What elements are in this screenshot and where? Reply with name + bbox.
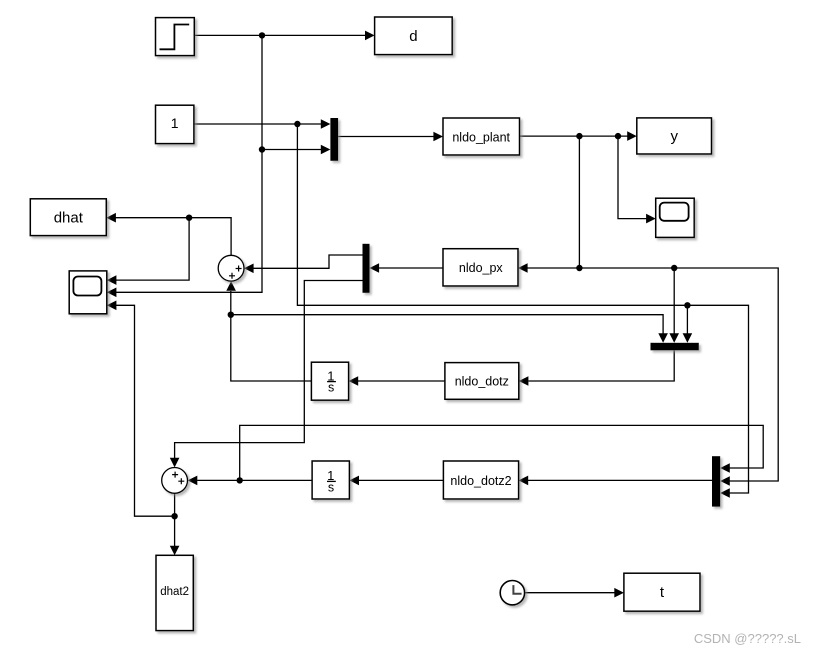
scope Scope1 bbox=[69, 271, 107, 314]
wire step junction down to mux input 2 bbox=[262, 35, 322, 149]
arrowhead into sum2 right bbox=[188, 476, 198, 486]
wire nldo_plant output to y bbox=[520, 135, 629, 137]
svg-text:CSDN @?????.sL: CSDN @?????.sL bbox=[694, 631, 801, 646]
integrator 1/s block 2 bbox=[312, 461, 349, 499]
svg-text:nldo_dotz2: nldo_dotz2 bbox=[450, 474, 511, 488]
outport t bbox=[624, 573, 700, 611]
svg-text:nldo_px: nldo_px bbox=[459, 261, 504, 275]
wire y branch down to scope2 bbox=[618, 136, 647, 219]
outport y bbox=[637, 118, 712, 154]
wire y branch down to x net bbox=[578, 136, 580, 268]
arrowhead into dhat bbox=[106, 213, 116, 223]
arrowhead into scope1 input 3 bbox=[107, 301, 117, 311]
arrowhead into y bbox=[627, 131, 637, 141]
node junction d line bbox=[259, 146, 265, 152]
arrowhead into nldo_dotz bbox=[519, 376, 529, 386]
node junction z2 net bbox=[237, 477, 243, 483]
wire dhat branch to scope input 1 bbox=[116, 218, 189, 280]
arrowhead into t bbox=[614, 588, 624, 598]
arrowhead into nldo_px bbox=[518, 263, 528, 273]
svg-text:dhat: dhat bbox=[54, 209, 84, 226]
sum2 plus right bbox=[178, 478, 184, 484]
node junction step-d bbox=[259, 32, 265, 38]
step block bbox=[156, 18, 195, 56]
arrowhead into sum1 right bbox=[244, 264, 254, 274]
sum2 plus top bbox=[172, 472, 178, 478]
wire integrator1 output up to sum1 bottom bbox=[231, 291, 312, 381]
node junction u to bus1 bbox=[684, 302, 690, 308]
node junction x to bus1 bbox=[671, 265, 677, 271]
mux bus1 horizontal bbox=[651, 343, 699, 351]
arrowhead into mux2 input 2 bbox=[720, 476, 730, 486]
clock block bbox=[500, 581, 524, 605]
arrowhead into dhat2 bbox=[170, 546, 180, 556]
sum1 plus right bbox=[236, 266, 242, 272]
wire demux1 output 1 to sum1 bbox=[254, 255, 363, 268]
arrowhead into bus1 input 2 bbox=[669, 333, 679, 343]
wire mux2 output to nldo_dotz2 bbox=[528, 479, 712, 481]
sum Sum2 bbox=[162, 468, 188, 494]
arrowhead into demux1 bbox=[370, 263, 380, 273]
wire sum1 output to dhat bbox=[116, 218, 232, 256]
arrowhead into bus1 input 3 bbox=[683, 333, 693, 343]
wire x net to nldo_px and east to mux2 input 2 bbox=[528, 268, 779, 481]
svg-text:dhat2: dhat2 bbox=[160, 586, 189, 598]
wire sum2 output down to dhat2 bbox=[174, 494, 176, 547]
node junction y line 1 bbox=[576, 133, 582, 139]
arrowhead into mux2 input 3 bbox=[720, 488, 730, 498]
wire step to d bbox=[195, 34, 367, 36]
outport dhat2 bbox=[156, 555, 193, 630]
wire nldo_px output to demux1 bbox=[379, 267, 443, 269]
demux Demux1 bbox=[363, 244, 370, 293]
wire constant 1 to mux input 1 bbox=[194, 123, 322, 125]
arrowhead into nldo_plant bbox=[433, 132, 443, 142]
arrowhead into integrator1 bbox=[349, 376, 359, 386]
wire integrator2 output to sum2 bbox=[197, 479, 312, 481]
outport dhat bbox=[30, 199, 106, 236]
wire bus1 output to nldo_dotz bbox=[529, 350, 675, 381]
mux Mux1 bbox=[330, 118, 338, 161]
wire nldo_dotz2 output to integrator2 bbox=[359, 479, 443, 481]
arrowhead into nldo_dotz2 bbox=[519, 476, 529, 486]
arrowhead into mux1 input 1 bbox=[321, 119, 331, 129]
constant 1 block bbox=[156, 105, 194, 143]
subsystem nldo_dotz bbox=[445, 363, 519, 400]
node junction dhat line bbox=[186, 215, 192, 221]
scope Scope2 bbox=[656, 198, 695, 237]
arrowhead into sum2 top bbox=[170, 458, 180, 468]
svg-text:y: y bbox=[670, 128, 678, 145]
wire z net east to bus1 input 1 bbox=[231, 315, 663, 335]
arrowhead into mux1 input 2 bbox=[321, 145, 331, 155]
node junction z net bbox=[228, 312, 234, 318]
svg-text:s: s bbox=[328, 481, 334, 495]
arrowhead into integrator2 bbox=[349, 476, 359, 486]
node junction x net at plant drop bbox=[576, 265, 582, 271]
wire d line down to scope input 2 bbox=[116, 150, 262, 293]
arrowhead into bus1 input 1 bbox=[658, 333, 668, 343]
subsystem nldo_plant bbox=[443, 118, 520, 155]
subsystem nldo_dotz2 bbox=[443, 461, 518, 499]
arrowhead into mux2 input 1 bbox=[720, 463, 730, 473]
wire u line down and east to mux2 input 3 bbox=[297, 124, 748, 493]
wire nldo_dotz output to integrator1 bbox=[358, 380, 445, 382]
node junction u line bbox=[294, 121, 300, 127]
sum Sum1 bbox=[218, 255, 244, 281]
wire u branch down to bus1 input 3 bbox=[686, 305, 688, 334]
svg-text:nldo_plant: nldo_plant bbox=[452, 130, 510, 144]
arrowhead into d bbox=[365, 31, 375, 41]
svg-text:nldo_dotz: nldo_dotz bbox=[455, 375, 509, 389]
node junction dhat2 line bbox=[171, 513, 177, 519]
arrowhead into scope1 input 2 bbox=[107, 288, 117, 298]
arrowhead into scope1 input 1 bbox=[107, 275, 117, 285]
wire z2 feedback to mux2 input 1 bbox=[240, 425, 764, 480]
mux Mux2 bbox=[712, 456, 720, 506]
arrowhead into sum1 bottom bbox=[226, 281, 236, 291]
wire x branch down to bus1 input 2 bbox=[673, 268, 675, 335]
svg-text:1: 1 bbox=[171, 115, 179, 131]
outport d bbox=[375, 17, 453, 55]
wire dhat2 branch up to scope input 3 bbox=[116, 305, 175, 516]
svg-text:d: d bbox=[409, 28, 417, 45]
svg-text:s: s bbox=[328, 381, 334, 395]
wire clock to t bbox=[525, 592, 615, 594]
integrator 1/s block 1 bbox=[311, 362, 348, 400]
subsystem nldo_px bbox=[443, 249, 518, 286]
node junction y line 2 bbox=[615, 133, 621, 139]
sum1 plus bottom bbox=[229, 273, 235, 279]
wire demux1 output 2 to sum2 top bbox=[175, 281, 363, 459]
wire mux1 output to nldo_plant bbox=[338, 136, 434, 138]
arrowhead into scope2 bbox=[646, 214, 656, 224]
